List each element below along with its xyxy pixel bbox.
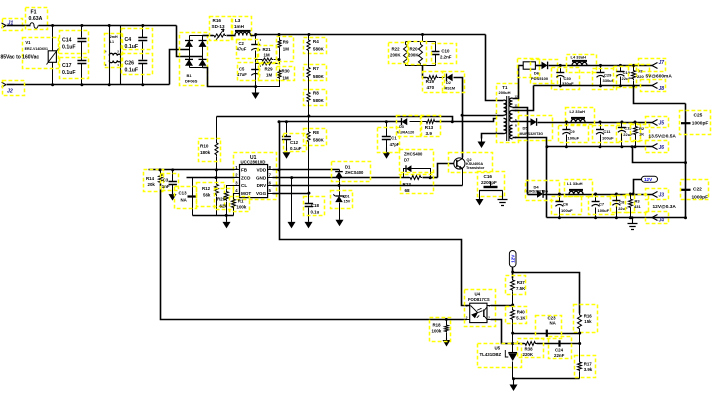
svg-text:R12: R12 [202, 186, 211, 191]
wire crossover to R16 [513, 273, 580, 314]
ground GND drop [291, 178, 293, 221]
opto U4 FOD817CS [470, 303, 487, 322]
svg-text:200K: 200K [408, 53, 419, 58]
svg-text:D7: D7 [404, 158, 410, 163]
svg-text:1K: 1K [639, 131, 644, 136]
svg-text:J7: J7 [659, 60, 665, 66]
wire 12V to R37 [512, 268, 514, 279]
svg-text:D6: D6 [534, 71, 540, 76]
svg-text:R13: R13 [425, 125, 434, 130]
svg-text:CL: CL [241, 183, 247, 188]
svg-text:R20: R20 [410, 47, 419, 52]
shunt regulator U5 TL431DBZ [512, 334, 514, 353]
ground [254, 85, 257, 88]
wire chain to VGG [308, 103, 310, 131]
svg-text:L3: L3 [235, 18, 241, 23]
svg-text:12V: 12V [510, 254, 515, 263]
fuse element (rect) [523, 62, 535, 69]
svg-text:C1: C1 [391, 136, 397, 141]
wire pin4 lead [486, 35, 504, 101]
svg-text:C14: C14 [62, 38, 72, 44]
svg-text:15V: 15V [344, 200, 351, 204]
svg-text:R30: R30 [282, 69, 291, 74]
svg-text:1M: 1M [283, 47, 289, 52]
svg-text:220K: 220K [523, 352, 534, 357]
svg-text:5V@600mA: 5V@600mA [646, 74, 673, 80]
svg-text:DF06S: DF06S [185, 79, 198, 84]
svg-text:2mH: 2mH [110, 35, 118, 39]
resistor R37 7.5K [511, 279, 515, 292]
resistor R12 56k [216, 178, 218, 184]
svg-text:NA: NA [550, 321, 557, 326]
svg-text:431: 431 [634, 204, 641, 209]
svg-text:100uF: 100uF [598, 208, 610, 213]
fuse F1 [30, 23, 38, 29]
svg-text:R29: R29 [265, 67, 274, 72]
resistor R30 1M [278, 70, 281, 80]
resistor R17 3.9k [578, 361, 582, 371]
svg-text:R9: R9 [283, 40, 289, 45]
svg-text:3.9k: 3.9k [584, 367, 593, 372]
svg-text:L1 33uH: L1 33uH [567, 181, 583, 186]
wire pin7 drop to 12V return [513, 138, 547, 218]
svg-text:C5: C5 [239, 67, 245, 72]
svg-text:R23: R23 [403, 182, 412, 187]
wire Q2 collector [462, 158, 464, 159]
wire bridge feed left [170, 50, 190, 85]
capacitor C23 NA [546, 330, 548, 337]
svg-text:0.1uF: 0.1uF [125, 68, 139, 74]
svg-text:R37: R37 [517, 280, 526, 285]
op-amp U1 UCC28610D [240, 165, 268, 198]
svg-text:100k: 100k [237, 204, 247, 209]
svg-text:J6: J6 [659, 145, 665, 151]
resistor R19 470 [427, 76, 439, 80]
svg-text:D5: D5 [523, 126, 529, 131]
resistor R13 3.9 [426, 120, 436, 124]
capacitor C12 0.1uF [286, 122, 288, 137]
svg-text:D3: D3 [399, 125, 404, 129]
varistor V1 [52, 26, 54, 51]
capacitor C6 100uF [559, 195, 561, 202]
ground [512, 377, 515, 380]
svg-text:NA: NA [181, 198, 188, 203]
svg-text:R22: R22 [392, 47, 401, 52]
svg-text:C26: C26 [125, 61, 135, 67]
svg-text:DRV: DRV [257, 183, 268, 188]
svg-text:1nF: 1nF [162, 184, 170, 189]
transistor Q2 [454, 158, 465, 169]
wire 12V rail [544, 194, 653, 196]
diode D5 MURS320T3G [531, 118, 537, 126]
svg-text:C18: C18 [311, 203, 320, 208]
connector J7 [652, 63, 658, 69]
svg-text:20k: 20k [148, 182, 156, 187]
diode D3 MURA120 [402, 118, 408, 125]
svg-text:22nF: 22nF [554, 353, 565, 358]
inductor L1 33uH [569, 191, 583, 194]
svg-text:R1: R1 [238, 199, 244, 204]
capacitor C16 2200pF [490, 182, 492, 187]
svg-text:L2 33uH: L2 33uH [570, 109, 586, 114]
wire 5V rail [549, 65, 653, 67]
inductor L3 1mH [227, 35, 236, 37]
svg-text:100uF: 100uF [568, 136, 580, 141]
svg-text:1000pF: 1000pF [692, 121, 709, 127]
wire Q2 emitter to DRV [462, 169, 464, 186]
svg-text:R8: R8 [313, 130, 319, 135]
common-mode choke L1 2mH [109, 26, 111, 85]
svg-text:R25: R25 [217, 197, 226, 202]
ground arrow under C16 [479, 191, 481, 197]
wire 5V return to winding B [513, 86, 534, 111]
connector J8 [534, 85, 653, 87]
capacitor C8 22uF [616, 195, 618, 201]
svg-text:R14: R14 [146, 176, 155, 181]
wire opto out to R37/R40 node [491, 305, 513, 307]
svg-text:0.1uF: 0.1uF [290, 146, 302, 151]
svg-text:F1: F1 [31, 10, 37, 16]
resistor R22 200K [404, 42, 408, 66]
svg-text:C7: C7 [599, 201, 605, 206]
capacitor C22 1000pF [681, 189, 691, 191]
svg-text:580K: 580K [313, 138, 325, 143]
svg-text:C13: C13 [179, 191, 188, 196]
svg-text:ERZ-V14D601: ERZ-V14D601 [25, 47, 48, 51]
wire pin11 drop [513, 108, 528, 195]
svg-text:220: 220 [637, 74, 644, 79]
capacitor C29 330uF [600, 66, 602, 73]
svg-text:C10: C10 [441, 49, 450, 54]
svg-text:R3: R3 [635, 199, 641, 204]
svg-text:ZHCS400: ZHCS400 [345, 170, 364, 175]
svg-text:TL431DBZ: TL431DBZ [480, 352, 502, 357]
net label 12V flag [642, 176, 658, 182]
svg-text:2.2nF: 2.2nF [440, 55, 452, 60]
svg-text:62k: 62k [220, 204, 228, 209]
earth ground 12V return [632, 218, 634, 224]
svg-text:0.1uF: 0.1uF [62, 45, 76, 51]
capacitor C5 47uF [251, 69, 260, 71]
svg-text:C2: C2 [239, 41, 245, 46]
svg-text:580K: 580K [313, 74, 325, 79]
diode D4 MURS320T3G [528, 194, 538, 196]
svg-text:C29: C29 [604, 73, 612, 78]
wire pin6 to D5 [513, 121, 531, 123]
svg-text:R8: R8 [313, 91, 319, 96]
svg-text:C17: C17 [62, 63, 72, 69]
svg-text:R2: R2 [639, 126, 645, 131]
svg-text:100uF: 100uF [602, 136, 614, 141]
svg-text:FB: FB [241, 168, 248, 173]
wire VDD drop to pin8 and opto [280, 122, 470, 306]
svg-text:22uF: 22uF [622, 76, 632, 81]
svg-text:13.5V@0.5A: 13.5V@0.5A [649, 133, 677, 139]
svg-text:RS1M: RS1M [445, 87, 456, 91]
svg-text:12V@0.3A: 12V@0.3A [653, 204, 677, 210]
svg-text:7.5K: 7.5K [516, 286, 526, 291]
resistor R3 431 [630, 195, 632, 199]
svg-text:VGG: VGG [256, 191, 267, 196]
svg-text:R10: R10 [200, 144, 209, 149]
capacitor C3 1nF [172, 170, 174, 182]
resistor R9 1M [279, 35, 281, 40]
svg-text:ZHCS400: ZHCS400 [404, 152, 423, 157]
wire drain sense line (left) [217, 117, 453, 122]
svg-text:0.1uF: 0.1uF [62, 70, 76, 76]
svg-text:C25: C25 [694, 113, 703, 119]
svg-text:R19: R19 [426, 79, 435, 84]
svg-text:C22: C22 [693, 186, 702, 192]
svg-text:C3: C3 [163, 178, 169, 183]
svg-text:580K: 580K [313, 98, 325, 103]
svg-text:5.1K: 5.1K [516, 316, 526, 321]
svg-text:0.63A: 0.63A [29, 16, 43, 22]
svg-text:ZCD: ZCD [241, 175, 251, 180]
diode D6 PDS5100 [536, 65, 542, 67]
resistor R2 1K [635, 123, 637, 126]
svg-text:C12: C12 [290, 140, 299, 145]
wire bottom node [513, 378, 580, 380]
resistor R40 5.1K [512, 306, 514, 309]
wire pin3 lead (drain) [463, 115, 504, 117]
capacitor C11 100uF [600, 123, 602, 130]
connector J2 [2, 82, 7, 87]
svg-text:VDD: VDD [256, 168, 266, 173]
wire opto cathode to R38 rail [491, 320, 525, 344]
svg-text:1M: 1M [266, 73, 272, 78]
capacitor C4 [142, 26, 144, 38]
wire 5V return to Y-cap rail [634, 86, 686, 104]
connector J3 [652, 192, 658, 198]
svg-text:D2: D2 [446, 81, 451, 85]
svg-text:56k: 56k [203, 193, 211, 198]
svg-text:15k: 15k [584, 319, 592, 324]
net label 12V flag vertical [509, 251, 516, 268]
capacitor C24 22nF [558, 340, 560, 346]
svg-text:C24: C24 [555, 348, 564, 353]
svg-text:100k: 100k [432, 329, 442, 334]
wire DRV pin6 [273, 185, 463, 187]
capacitor C19 22uF [620, 66, 622, 72]
clamp network R22/R20/C10 [406, 41, 436, 43]
wire HV bus [251, 35, 486, 36]
connector J4 [547, 217, 686, 219]
svg-text:GND: GND [256, 175, 267, 180]
svg-text:PDS5100: PDS5100 [531, 76, 549, 81]
wire [39, 25, 177, 27]
svg-text:MOT: MOT [241, 191, 251, 196]
wire R14 to opto feedback [161, 184, 447, 320]
svg-text:R21: R21 [263, 47, 272, 52]
resistor R4 580K [308, 35, 310, 39]
bridge B1 DF06S [190, 35, 203, 37]
capacitor C9 100uF [566, 123, 568, 130]
wire opto emitter feed [447, 319, 467, 321]
capacitor C26 [138, 61, 147, 64]
diode D7 ZHCS400 [404, 169, 407, 178]
svg-text:3.9: 3.9 [426, 131, 433, 136]
wire Q2 base [438, 164, 455, 178]
capacitor C13 NA [192, 178, 194, 216]
wire bridge positive out [203, 35, 214, 37]
resistor R16 15k [578, 313, 582, 331]
svg-text:C16: C16 [484, 174, 493, 179]
svg-text:J3: J3 [659, 192, 665, 198]
svg-text:C11: C11 [603, 129, 611, 134]
wire pin12 to 5V rect [513, 66, 524, 99]
svg-text:U4: U4 [475, 292, 481, 297]
capacitor C18 0.1uF [308, 194, 310, 204]
svg-text:200uH: 200uH [499, 90, 511, 95]
svg-text:R17: R17 [584, 362, 593, 367]
svg-text:470: 470 [427, 85, 435, 90]
wire ZCD [187, 177, 235, 179]
wire bridge feed right [177, 26, 203, 57]
svg-text:R16: R16 [213, 18, 222, 23]
inductor L2 33uH [571, 119, 585, 122]
svg-text:2200pF: 2200pF [481, 180, 497, 185]
wire VDD pin8 [273, 169, 340, 171]
svg-text:85Vac to 160Vac: 85Vac to 160Vac [1, 55, 40, 61]
svg-text:L1: L1 [110, 40, 114, 44]
svg-text:SD-13: SD-13 [212, 24, 225, 29]
capacitor C14 [81, 26, 83, 38]
resistor R14 20k [160, 170, 162, 174]
wire 13.5V return to Y-cap rail [633, 147, 686, 163]
svg-text:J5: J5 [659, 120, 665, 126]
ground [225, 214, 228, 217]
resistor R8 580K [308, 79, 310, 92]
svg-text:22uF: 22uF [623, 132, 633, 137]
svg-text:J1: J1 [8, 20, 14, 26]
capacitor C1 47pF [386, 122, 388, 137]
resistor R21 1M [256, 59, 262, 61]
wire VDD aux line [280, 121, 402, 123]
resistor R38 220K [524, 342, 537, 346]
svg-text:12V: 12V [644, 177, 653, 182]
svg-text:C8: C8 [619, 200, 625, 205]
svg-text:47uF: 47uF [237, 47, 247, 52]
svg-text:FOD817CS: FOD817CS [468, 297, 490, 302]
capacitor C30 330uF [560, 66, 562, 73]
resistor R6 220 [633, 66, 635, 70]
resistor R29 1M [256, 63, 262, 65]
svg-text:R18: R18 [433, 323, 442, 328]
earth ground under C16 [502, 191, 504, 194]
svg-text:ZD1: ZD1 [343, 195, 350, 199]
svg-text:C19: C19 [623, 70, 631, 75]
resistor R1 100k [234, 194, 235, 199]
wire 12V flag lead [634, 180, 642, 195]
capacitor C7 100uF [595, 195, 597, 202]
svg-text:R38: R38 [525, 347, 534, 352]
connector J5 [652, 120, 658, 126]
fusible resistor R16 SD-13 [213, 34, 226, 37]
resistor R8 580K lower [307, 130, 310, 143]
svg-text:47pF: 47pF [390, 142, 400, 147]
capacitor C10 2.2nF [435, 42, 437, 52]
wire FB [149, 169, 235, 171]
svg-text:1M: 1M [264, 53, 270, 58]
capacitor C15 22uF [621, 123, 623, 128]
zener ZD1 15V [339, 186, 341, 196]
wire top AC line [15, 25, 31, 27]
svg-text:580K: 580K [313, 47, 325, 52]
capacitor C17 [77, 61, 86, 64]
resistor R18 100k [445, 318, 448, 321]
svg-text:180k: 180k [200, 150, 211, 155]
svg-text:200K: 200K [390, 53, 401, 58]
capacitor C2 47uF [255, 35, 257, 45]
svg-text:R16: R16 [584, 314, 593, 319]
resistor R23 68 [409, 176, 422, 180]
wire GND pin7 [273, 177, 292, 179]
wire clamp to R19 [423, 66, 427, 78]
wire bridge negative out [203, 68, 256, 87]
svg-text:0.1u: 0.1u [311, 210, 320, 215]
svg-text:R7: R7 [313, 66, 319, 71]
svg-text:J2: J2 [7, 89, 13, 95]
resistor R7 580K [308, 52, 310, 67]
svg-text:MURS320T3G: MURS320T3G [520, 132, 544, 136]
svg-text:V1: V1 [25, 40, 31, 45]
wire aux bottom to gnd [482, 134, 504, 139]
svg-text:D1: D1 [345, 165, 351, 170]
resistor R10 180k [216, 117, 218, 142]
diode D2 RS1M [447, 74, 453, 82]
svg-text:1mH: 1mH [234, 24, 245, 29]
svg-text:C6: C6 [563, 201, 569, 206]
inductor L4 33uH [572, 62, 587, 65]
wire GND net to clamp diodes [292, 177, 410, 179]
svg-text:C4: C4 [125, 37, 132, 43]
svg-text:68: 68 [405, 188, 411, 193]
svg-text:47uF: 47uF [237, 72, 247, 77]
capacitor C25 1000pF [681, 122, 691, 124]
wire bottom AC line [15, 84, 170, 86]
svg-text:J4: J4 [659, 218, 665, 224]
svg-text:B1: B1 [187, 73, 193, 78]
svg-text:22uF: 22uF [618, 206, 628, 211]
wire 13.5V rail [538, 122, 653, 124]
wire comp node [513, 333, 580, 335]
svg-text:R40: R40 [517, 310, 526, 315]
svg-text:Transistor: Transistor [466, 166, 485, 170]
resistor R20 200K [419, 42, 423, 66]
resistor R25 62k [227, 186, 235, 191]
connector J1 [2, 23, 7, 28]
diode D1 ZHCS400 [339, 170, 341, 172]
Y-cap rail [685, 104, 687, 218]
svg-text:U5: U5 [495, 346, 501, 351]
svg-text:MURS320T3G: MURS320T3G [525, 189, 549, 193]
wire ZCD bottom bus [193, 215, 234, 217]
svg-text:UCC28610D: UCC28610D [241, 160, 266, 165]
svg-text:R4: R4 [313, 39, 319, 44]
connector J6 [547, 146, 653, 148]
wire VGG pin5 [273, 193, 309, 195]
svg-text:C9: C9 [570, 129, 576, 134]
svg-text:100uF: 100uF [561, 208, 573, 213]
